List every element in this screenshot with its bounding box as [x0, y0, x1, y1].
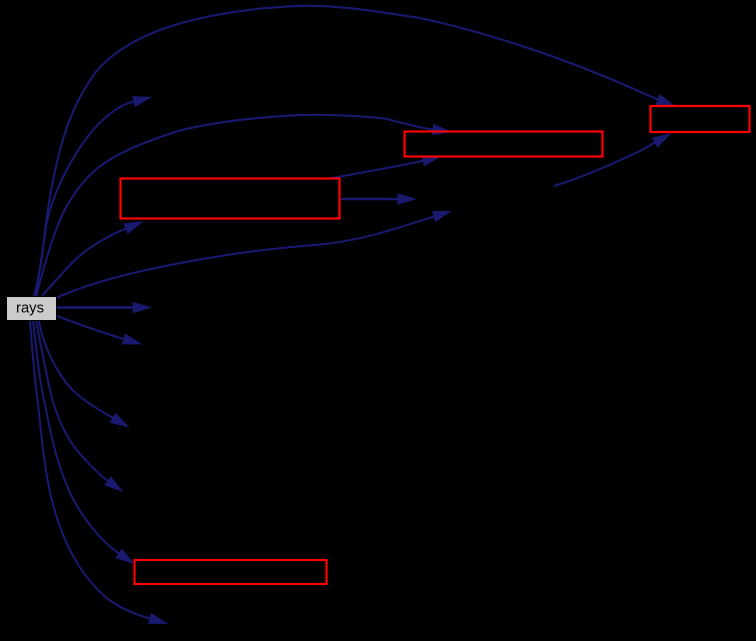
node box3 (red truncated node, left) — [121, 179, 340, 219]
edge rays->box2 (enters top) — [36, 115, 433, 297]
svg-text:rays: rays — [16, 301, 44, 317]
edge hidden node->box1 (enters bottom) — [554, 143, 655, 187]
node rays (main node, grey) — [7, 297, 57, 321]
edge box3->box2 (enters bottom) — [330, 161, 423, 179]
node box1 (red truncated node, top right) — [651, 106, 750, 132]
edge rays->box4 (enters left edge) — [33, 321, 119, 554]
edge rays->hidden node (arrow at 152,97) — [35, 102, 134, 298]
edge rays->box3 (enters bottom) — [42, 229, 126, 297]
edge rays->hidden node (arrow at 123,492) — [36, 321, 108, 481]
node box4 (red truncated node, bottom) — [135, 560, 327, 584]
edge box3->hidden node (horizontal arrow at 417,199) — [341, 198, 398, 200]
node box2 (red truncated node, middle) — [405, 132, 603, 157]
edge rays->hidden node (horizontal arrow at 152,308) — [57, 306, 133, 308]
edge rays->hidden node (arrow at 130,427) — [39, 321, 113, 418]
edge rays->hidden node (arrow at 140,344) — [57, 316, 124, 339]
edge rays->hidden node (arrow at 167,622) — [30, 321, 150, 619]
edge rays->box1 (top arc) — [34, 6, 658, 297]
edge rays->hidden node (arrow at 452,211) — [57, 217, 434, 298]
